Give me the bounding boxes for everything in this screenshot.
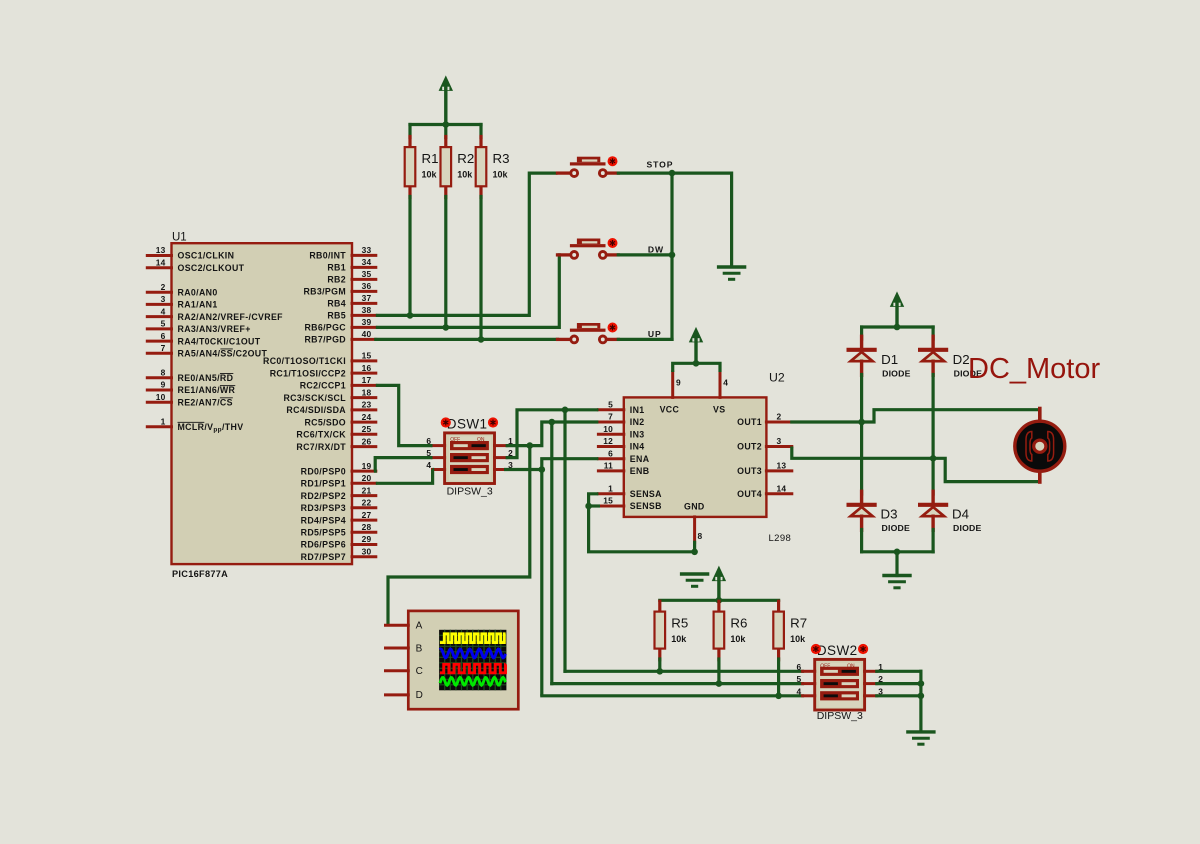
svg-text:40: 40 — [362, 329, 372, 339]
svg-text:2: 2 — [161, 282, 166, 292]
svg-text:15: 15 — [362, 351, 372, 361]
svg-text:OUT1: OUT1 — [737, 417, 762, 427]
svg-text:OSC2/CLKOUT: OSC2/CLKOUT — [178, 263, 245, 273]
svg-text:29: 29 — [362, 534, 372, 544]
svg-text:D3: D3 — [881, 507, 898, 522]
svg-text:RA1/AN1: RA1/AN1 — [178, 300, 218, 310]
svg-text:R6: R6 — [730, 615, 747, 630]
svg-text:9: 9 — [161, 380, 166, 390]
svg-text:RB6/PGC: RB6/PGC — [304, 323, 346, 333]
svg-text:10k: 10k — [730, 634, 746, 644]
svg-text:RD4/PSP4: RD4/PSP4 — [301, 515, 346, 525]
svg-text:RD3/PSP3: RD3/PSP3 — [301, 503, 346, 513]
svg-text:STOP: STOP — [647, 160, 674, 170]
svg-text:35: 35 — [362, 269, 372, 279]
svg-text:5: 5 — [161, 319, 166, 329]
svg-text:36: 36 — [362, 281, 372, 291]
svg-text:22: 22 — [362, 498, 372, 508]
svg-text:12: 12 — [603, 436, 613, 446]
svg-text:RD2/PSP2: RD2/PSP2 — [301, 491, 346, 501]
svg-text:RA3/AN3/VREF+: RA3/AN3/VREF+ — [178, 324, 251, 334]
svg-text:15: 15 — [603, 496, 613, 506]
svg-text:RA0/AN0: RA0/AN0 — [178, 287, 218, 297]
svg-text:RC3/SCK/SCL: RC3/SCK/SCL — [283, 393, 346, 403]
svg-text:RE1/AN6/WR: RE1/AN6/WR — [178, 385, 236, 395]
svg-text:UP: UP — [648, 329, 662, 339]
svg-text:10: 10 — [156, 392, 166, 402]
svg-text:IN3: IN3 — [630, 430, 645, 440]
svg-text:1: 1 — [608, 484, 613, 494]
svg-text:DW: DW — [648, 245, 664, 255]
svg-text:4: 4 — [161, 306, 166, 316]
svg-text:RD0/PSP0: RD0/PSP0 — [301, 466, 346, 476]
svg-text:RB5: RB5 — [327, 311, 346, 321]
svg-text:RB3/PGM: RB3/PGM — [303, 287, 346, 297]
svg-text:RC6/TX/CK: RC6/TX/CK — [296, 430, 346, 440]
svg-text:RB7/PGD: RB7/PGD — [304, 335, 346, 345]
svg-text:21: 21 — [362, 485, 372, 495]
svg-text:IN2: IN2 — [630, 417, 645, 427]
svg-text:8: 8 — [698, 531, 703, 541]
svg-text:11: 11 — [604, 461, 613, 471]
svg-text:16: 16 — [362, 363, 372, 373]
svg-text:DIODE: DIODE — [953, 523, 982, 533]
svg-text:SENSB: SENSB — [630, 501, 662, 511]
svg-text:RC1/T1OSI/CCP2: RC1/T1OSI/CCP2 — [270, 368, 346, 378]
svg-text:OUT2: OUT2 — [737, 442, 762, 452]
svg-text:U1: U1 — [172, 232, 187, 244]
svg-text:DIPSW_3: DIPSW_3 — [447, 486, 493, 498]
svg-text:RE0/AN5/RD: RE0/AN5/RD — [178, 373, 234, 383]
svg-text:17: 17 — [362, 375, 372, 385]
svg-text:7: 7 — [161, 343, 166, 353]
svg-text:ENB: ENB — [630, 466, 650, 476]
svg-text:DC_Motor: DC_Motor — [968, 353, 1100, 385]
svg-text:9: 9 — [676, 378, 681, 388]
svg-text:27: 27 — [362, 510, 372, 520]
svg-text:RC2/CCP1: RC2/CCP1 — [300, 381, 346, 391]
svg-text:7: 7 — [608, 412, 613, 422]
svg-text:R3: R3 — [493, 151, 510, 166]
svg-text:C: C — [416, 666, 423, 677]
svg-text:13: 13 — [777, 461, 787, 471]
svg-text:37: 37 — [362, 293, 372, 303]
svg-text:RC7/RX/DT: RC7/RX/DT — [296, 442, 346, 452]
svg-text:39: 39 — [362, 317, 372, 327]
svg-text:IN4: IN4 — [630, 442, 645, 452]
svg-text:2: 2 — [777, 412, 782, 422]
svg-text:20: 20 — [362, 473, 372, 483]
svg-text:RB2: RB2 — [327, 275, 346, 285]
svg-text:R5: R5 — [671, 615, 688, 630]
svg-text:RD6/PSP6: RD6/PSP6 — [301, 540, 346, 550]
svg-text:24: 24 — [362, 412, 372, 422]
svg-text:D1: D1 — [881, 352, 898, 367]
svg-text:10k: 10k — [671, 634, 687, 644]
svg-text:10k: 10k — [493, 169, 509, 179]
svg-text:8: 8 — [161, 368, 166, 378]
svg-text:OUT4: OUT4 — [737, 489, 762, 499]
svg-text:OUT3: OUT3 — [737, 466, 762, 476]
svg-text:DSW1: DSW1 — [447, 417, 488, 432]
svg-text:RD7/PSP7: RD7/PSP7 — [301, 552, 346, 562]
svg-text:RA2/AN2/VREF-/CVREF: RA2/AN2/VREF-/CVREF — [178, 312, 284, 322]
svg-text:RB1: RB1 — [327, 263, 346, 273]
svg-text:14: 14 — [156, 257, 166, 267]
svg-text:3: 3 — [777, 436, 782, 446]
svg-text:3: 3 — [161, 294, 166, 304]
svg-text:R1: R1 — [422, 151, 439, 166]
svg-text:GND: GND — [684, 502, 705, 512]
svg-text:VS: VS — [713, 405, 725, 415]
svg-text:1: 1 — [161, 416, 166, 426]
svg-text:DSW2: DSW2 — [817, 643, 858, 658]
svg-text:4: 4 — [723, 378, 728, 388]
svg-text:4: 4 — [426, 460, 431, 470]
svg-text:ENA: ENA — [630, 454, 650, 464]
svg-text:19: 19 — [362, 461, 372, 471]
svg-text:18: 18 — [362, 387, 372, 397]
svg-text:23: 23 — [362, 400, 372, 410]
svg-text:5: 5 — [608, 400, 613, 410]
svg-text:38: 38 — [362, 305, 372, 315]
svg-text:DIODE: DIODE — [882, 523, 911, 533]
svg-text:D: D — [416, 690, 423, 701]
svg-text:10k: 10k — [422, 169, 438, 179]
svg-text:26: 26 — [362, 436, 372, 446]
svg-text:SENSA: SENSA — [630, 489, 662, 499]
svg-text:D4: D4 — [952, 507, 969, 522]
svg-text:10k: 10k — [457, 169, 473, 179]
svg-text:RD1/PSP1: RD1/PSP1 — [301, 479, 346, 489]
svg-text:RC0/T1OSO/T1CKI: RC0/T1OSO/T1CKI — [263, 356, 346, 366]
svg-text:5: 5 — [797, 674, 802, 684]
svg-text:6: 6 — [608, 448, 613, 458]
svg-text:6: 6 — [161, 331, 166, 341]
svg-text:34: 34 — [362, 257, 372, 267]
svg-text:RE2/AN7/CS: RE2/AN7/CS — [178, 397, 233, 407]
svg-text:RA4/T0CKI/C1OUT: RA4/T0CKI/C1OUT — [178, 336, 261, 346]
svg-text:6: 6 — [797, 662, 802, 672]
svg-text:RA5/AN4/SS/C2OUT: RA5/AN4/SS/C2OUT — [178, 349, 268, 359]
svg-text:33: 33 — [362, 245, 372, 255]
svg-text:IN1: IN1 — [630, 405, 645, 415]
svg-text:MCLR/Vpp/THV: MCLR/Vpp/THV — [178, 422, 244, 434]
svg-text:10: 10 — [603, 424, 613, 434]
svg-text:DIPSW_3: DIPSW_3 — [817, 710, 863, 722]
svg-text:R7: R7 — [790, 615, 807, 630]
svg-text:PIC16F877A: PIC16F877A — [172, 569, 228, 579]
svg-text:RD5/PSP5: RD5/PSP5 — [301, 528, 346, 538]
svg-text:RC5/SDO: RC5/SDO — [304, 417, 346, 427]
svg-text:DIODE: DIODE — [882, 369, 911, 379]
svg-text:U2: U2 — [769, 371, 785, 385]
svg-text:RC4/SDI/SDA: RC4/SDI/SDA — [286, 405, 346, 415]
svg-text:30: 30 — [362, 547, 372, 557]
svg-text:25: 25 — [362, 424, 372, 434]
svg-text:R2: R2 — [457, 151, 474, 166]
svg-text:4: 4 — [797, 686, 802, 696]
svg-text:10k: 10k — [790, 634, 806, 644]
svg-text:L298: L298 — [769, 533, 792, 544]
svg-text:13: 13 — [156, 245, 166, 255]
svg-text:RB4: RB4 — [327, 299, 346, 309]
svg-text:14: 14 — [777, 484, 787, 494]
svg-text:B: B — [416, 643, 423, 654]
svg-text:OSC1/CLKIN: OSC1/CLKIN — [178, 251, 235, 261]
svg-text:RB0/INT: RB0/INT — [309, 251, 346, 261]
svg-text:VCC: VCC — [660, 405, 680, 415]
svg-text:A: A — [416, 621, 423, 632]
svg-text:28: 28 — [362, 522, 372, 532]
